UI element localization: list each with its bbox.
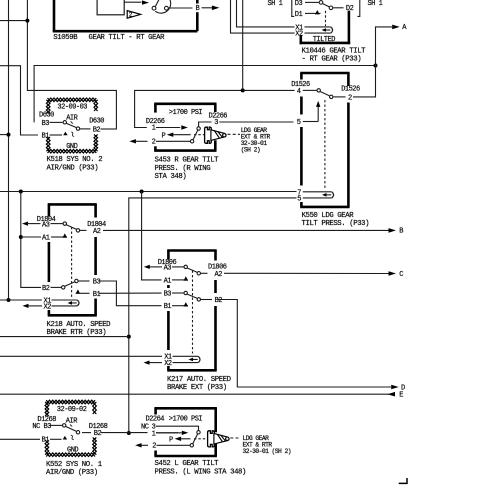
svg-text:B2: B2 [93, 127, 101, 135]
wire K217 B2 to arrow D [218, 300, 392, 388]
K218 box edges (thick with pin gaps) [48, 203, 97, 206]
bus wire y=439.3 from left edge to K552 B1 [0, 438, 40, 440]
svg-text:X2: X2 [295, 31, 303, 39]
S453 box (thick rails with side stubs) [154, 103, 216, 106]
svg-text:B: B [399, 228, 403, 236]
svg-text:32-09-03: 32-09-03 [57, 104, 87, 112]
svg-text:A3: A3 [164, 265, 172, 273]
S453 pin 3 riser from contact [199, 122, 212, 127]
svg-text:D630: D630 [89, 118, 104, 126]
junction V1/left stub [7, 133, 11, 137]
svg-text:D630: D630 [39, 111, 54, 119]
svg-text:32-09-02: 32-09-02 [57, 406, 87, 414]
svg-text:PRESS. (L WING STA 348): PRESS. (L WING STA 348) [155, 468, 247, 476]
svg-text:AIR/GND (P33): AIR/GND (P33) [46, 469, 98, 477]
K550 actuator dashed line [324, 100, 326, 189]
vertical from top edge x=242.7 to pin4 wire [242, 0, 244, 90]
svg-text:5: 5 [297, 119, 301, 127]
S452 switch contacts [197, 431, 200, 434]
S1059B output wire to B [168, 7, 192, 9]
S1059B box outline (thick, partial) [53, 0, 56, 31]
K217 actuator dashed line [192, 271, 194, 354]
junction x128.8 / bus y=336.6 [127, 335, 131, 339]
svg-text:STA 348): STA 348) [155, 173, 187, 181]
svg-text:B1: B1 [42, 132, 50, 140]
svg-text:D3: D3 [295, 0, 303, 8]
svg-text:SH 1: SH 1 [268, 0, 283, 8]
svg-text:32-30-01 (SH 2): 32-30-01 (SH 2) [243, 448, 291, 455]
svg-text:2: 2 [152, 443, 156, 451]
K10446 connector bracket right (SH 1) [357, 0, 359, 16]
K10446 pin D2 wire [333, 7, 343, 9]
wire K218 A1 from drop [21, 236, 41, 238]
svg-text:AIR: AIR [66, 115, 78, 123]
svg-text:X2: X2 [44, 304, 52, 312]
svg-text:K217 AUTO. SPEED: K217 AUTO. SPEED [167, 376, 232, 384]
svg-text:P: P [169, 436, 173, 444]
arrow B [389, 228, 397, 233]
svg-text:D2264: D2264 [146, 416, 165, 424]
svg-text:1: 1 [152, 125, 156, 133]
wire K550 coil pin5(lower) via x=128.8 drop to S452/K552 net [129, 198, 297, 433]
svg-text:NC: NC [141, 424, 149, 432]
K10446 actuator dashed line [325, 11, 327, 26]
junction V1 / K218-X1 wire [7, 298, 11, 302]
S453 pressure bellows [205, 127, 212, 143]
svg-text:TILT PRESS. (P33): TILT PRESS. (P33) [302, 220, 370, 228]
S453 hatched cone cylinder [211, 130, 226, 141]
K217 box edges (thick with pin gaps) [167, 249, 217, 252]
vertical from top edge x=236.5 to K10446 X1 [237, 0, 295, 27]
svg-text:>1700 PSI: >1700 PSI [169, 109, 203, 117]
svg-text:GND: GND [66, 143, 77, 151]
svg-text:GEAR TILT - RT GEAR: GEAR TILT - RT GEAR [89, 34, 166, 42]
svg-text:S453 R GEAR TILT: S453 R GEAR TILT [155, 157, 220, 165]
svg-text:A1: A1 [42, 234, 50, 242]
S1059B cam pointer triangle 2 [127, 11, 140, 19]
svg-text:B2: B2 [42, 285, 50, 293]
svg-text:- RT GEAR (P33): - RT GEAR (P33) [302, 56, 362, 64]
svg-text:4: 4 [297, 88, 301, 96]
S453 link dashes to bellows [194, 134, 204, 136]
K218 switch contacts [63, 222, 66, 225]
svg-text:PRESS. (R WING: PRESS. (R WING [155, 165, 211, 173]
svg-text:S1059B: S1059B [53, 34, 78, 42]
wire K552 B2 to S452 pin1 [82, 432, 91, 434]
vertical wire V1 x=8.5 from top to K218 X1 wire [8, 0, 10, 300]
svg-text:B3: B3 [164, 290, 172, 298]
S452 link dashes to bellows [194, 438, 207, 440]
K218 actuator dashed line [71, 227, 73, 297]
svg-text:C: C [399, 271, 403, 279]
svg-text:D1: D1 [295, 11, 303, 19]
svg-text:X2: X2 [164, 360, 172, 368]
svg-text:BRAKE EXT (P33): BRAKE EXT (P33) [167, 384, 227, 392]
junction x20.8 / K218 A1 wire [19, 235, 23, 239]
bus wire y=356.3 from left edge to K217 X1 [0, 355, 162, 357]
S452 pressure bellows [208, 431, 215, 447]
svg-text:K218 AUTO. SPEED: K218 AUTO. SPEED [47, 321, 112, 329]
svg-text:A2: A2 [215, 271, 223, 279]
wire K550 contact2 to arrow A, label gaps for D1526/2 [334, 96, 346, 98]
K550 switch contacts [317, 89, 320, 92]
svg-text:GND: GND [67, 447, 78, 455]
K518 contact tick marks [71, 122, 73, 124]
svg-text:K518 SYS NO. 2: K518 SYS NO. 2 [47, 156, 103, 164]
S1059B inner component box [97, 0, 124, 15]
svg-text:D2: D2 [346, 5, 354, 13]
K10446 connector bracket left (SH 1) [292, 0, 294, 16]
bus wire y=65.5 from K518 B3 riser to node A vertical [34, 66, 375, 123]
S1059B rotary switch circles and lever [155, 0, 170, 13]
wire K550 pin4 feed y=90.5 with hook down to S453 pin1 [135, 90, 295, 127]
junction y191.5 / x=20.8 drop [19, 190, 23, 194]
svg-text:AIR: AIR [66, 418, 78, 426]
svg-text:3: 3 [214, 119, 218, 127]
svg-text:B3: B3 [93, 279, 101, 287]
K218 X2 stub with left arrow [26, 305, 42, 307]
svg-text:P: P [162, 132, 166, 140]
svg-text:NC B3: NC B3 [32, 423, 51, 431]
svg-text:D1526: D1526 [291, 81, 310, 89]
svg-text:B2: B2 [94, 430, 102, 438]
left stub wire y=134.6 into V1 [0, 134, 9, 136]
svg-text:A2: A2 [93, 228, 101, 236]
svg-text:K552 SYS NO. 1: K552 SYS NO. 1 [46, 461, 103, 469]
svg-text:2: 2 [348, 95, 352, 103]
svg-text:1: 1 [152, 430, 156, 438]
arrow C [389, 271, 397, 276]
S1059B wire inner box to switch with arrow [124, 1, 141, 3]
svg-text:5: 5 [297, 195, 301, 203]
wire K218 A2 to arrow B [80, 229, 87, 231]
bus wire y=394.2 from left edge to arrow E [0, 393, 395, 395]
arrow after B [212, 6, 220, 11]
svg-text:B1: B1 [164, 303, 172, 311]
K552 contact tick marks [70, 425, 72, 427]
K518 scalloped border [48, 98, 97, 102]
K217 switch contacts [184, 265, 187, 268]
S452 box (thick rails with side stubs) [154, 407, 217, 410]
svg-text:A3: A3 [42, 221, 50, 229]
svg-text:B: B [196, 5, 200, 13]
wire K217 A2 to arrow C [200, 272, 207, 274]
frame corner marker [399, 478, 407, 483]
svg-text:K10446 GEAR TILT: K10446 GEAR TILT [302, 47, 367, 55]
S453 dashed output line [228, 133, 241, 135]
svg-text:A1: A1 [164, 277, 172, 285]
S452 hatched cone cylinder [214, 433, 229, 444]
K10446 box edges (thick, partial) [348, 11, 351, 45]
wire K218 B3 hook to K217 B1 [99, 281, 162, 306]
GND stub wire from left edge to K518 B1 [0, 66, 38, 135]
svg-text:D1526: D1526 [341, 86, 360, 94]
junction V2/left wire [25, 19, 29, 23]
arrow E (pointing left) [388, 392, 396, 397]
vertical wire V2 x=27.4 (top feed, turns right at y=90.4) [27, 0, 116, 129]
K217 X2 stub with left arrow [147, 362, 162, 364]
bus wire y=300 from left edge to K218 X1 [0, 299, 42, 301]
S452 dashed output line [230, 437, 240, 439]
svg-text:B1: B1 [93, 291, 101, 299]
K552 scalloped border [46, 400, 95, 404]
drop wire x=20.8 to K218 B2 [21, 192, 41, 288]
wire S453 pin3 to K550 pin5 [219, 121, 293, 123]
K550 box edges (thick with pin gaps) [300, 72, 349, 75]
drop wire x=141.6 to K217 A1 [142, 192, 162, 280]
bus wire y=336.6 from left edge [0, 336, 129, 338]
svg-text:(SH 2): (SH 2) [241, 146, 260, 153]
wire K218 B1 to K217 B3 [99, 292, 162, 294]
svg-text:B3: B3 [42, 120, 50, 128]
svg-text:E: E [399, 392, 403, 400]
svg-text:AIR/GND (P33): AIR/GND (P33) [47, 164, 99, 172]
svg-text:B1: B1 [42, 437, 50, 445]
svg-text:SH 1: SH 1 [368, 0, 383, 8]
svg-text:TILTED: TILTED [313, 36, 336, 44]
vertical from top edge x=230.5 to K10446 X2 [231, 0, 295, 33]
svg-text:2: 2 [152, 139, 156, 147]
svg-text:BRAKE RTR (P33): BRAKE RTR (P33) [47, 329, 107, 337]
svg-text:>1700 PSI: >1700 PSI [169, 416, 203, 424]
arrow D [391, 385, 399, 390]
S453 switch contacts [197, 127, 200, 130]
svg-text:K550 LDG GEAR: K550 LDG GEAR [302, 212, 355, 220]
svg-text:S452 L GEAR TILT: S452 L GEAR TILT [155, 460, 220, 468]
svg-text:B2: B2 [215, 297, 223, 305]
wire from left edge to node V2 (y=20.6) [0, 20, 27, 22]
bus wire y=191.5 from left edge to K550 coil pin 7 [0, 191, 297, 193]
arrow A [392, 25, 400, 30]
junction y191.5 / x=141.6 drop [140, 190, 144, 194]
junction pin4 wire / top vertical x=242.7 [241, 88, 245, 92]
junction x128.8 / K552-B2 wire [127, 431, 131, 435]
junction bus y65.5 / A vertical [374, 64, 378, 68]
